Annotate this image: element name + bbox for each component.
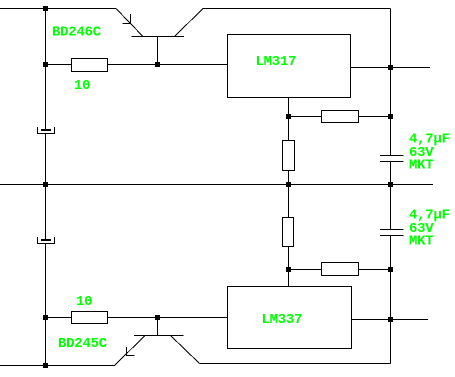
- svg-text:10: 10: [74, 78, 90, 94]
- svg-text:MKT: MKT: [409, 234, 433, 250]
- svg-text:BD245C: BD245C: [58, 336, 108, 352]
- svg-text:10: 10: [76, 294, 92, 310]
- svg-text:LM317: LM317: [256, 54, 297, 70]
- svg-text:BD246C: BD246C: [52, 25, 102, 41]
- svg-text:MKT: MKT: [409, 158, 433, 174]
- svg-text:LM337: LM337: [262, 312, 303, 328]
